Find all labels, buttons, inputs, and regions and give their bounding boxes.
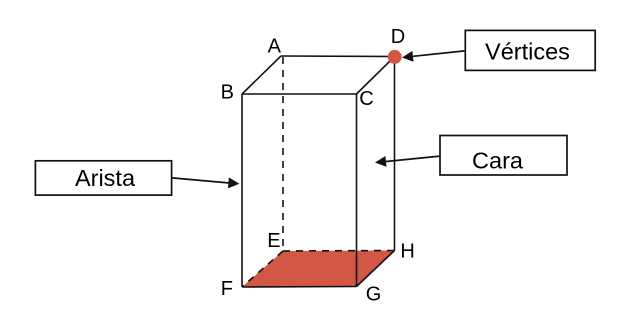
svg-text:D: D bbox=[391, 26, 405, 48]
wire edge B-C bbox=[242, 93, 357, 95]
wire edge A-D bbox=[281, 55, 395, 58]
wire edge B-F bbox=[241, 94, 243, 287]
svg-text:A: A bbox=[268, 35, 282, 57]
wire edge C-D bbox=[357, 57, 395, 95]
wire arrow Vertices bbox=[413, 51, 465, 56]
label box Cara bbox=[440, 136, 567, 176]
wire edge C-G bbox=[356, 94, 358, 287]
wire arrow Cara bbox=[386, 156, 440, 161]
label box Vertices bbox=[465, 30, 595, 70]
wire edge A-B bbox=[242, 56, 281, 94]
vertex dot at D bbox=[388, 50, 402, 64]
svg-text:E: E bbox=[267, 230, 280, 252]
svg-text:H: H bbox=[400, 241, 414, 263]
wire arrow Arista bbox=[172, 178, 230, 183]
face EHGF (bottom face, red fill) bbox=[242, 251, 395, 288]
svg-text:F: F bbox=[221, 278, 233, 300]
svg-text:Arista: Arista bbox=[75, 165, 136, 191]
wire edge G-H bbox=[357, 251, 395, 287]
svg-text:Cara: Cara bbox=[472, 148, 524, 174]
label box Arista bbox=[35, 161, 171, 195]
wire edge A-E dashed bbox=[282, 57, 284, 251]
wire edge D-H bbox=[394, 57, 396, 251]
wire edge E-H dashed bbox=[283, 250, 395, 253]
svg-text:C: C bbox=[359, 88, 373, 110]
svg-text:B: B bbox=[221, 81, 234, 103]
svg-text:G: G bbox=[366, 284, 382, 306]
svg-text:Vértices: Vértices bbox=[485, 39, 570, 65]
wire edge E-F dashed bbox=[242, 251, 283, 287]
wire edge F-G bbox=[242, 286, 357, 289]
